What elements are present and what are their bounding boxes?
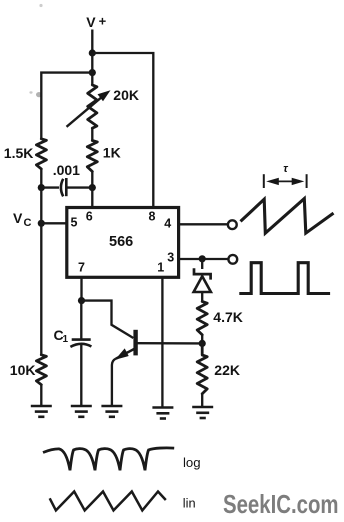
wire 10K to ground bbox=[40, 385, 42, 406]
svg-text:10K: 10K bbox=[10, 362, 36, 378]
ground G4 (pin 1) bbox=[152, 408, 173, 419]
wire V+ down to junction bbox=[91, 30, 93, 54]
svg-text:4: 4 bbox=[164, 216, 171, 230]
svg-text:566: 566 bbox=[109, 234, 133, 250]
wire junction H to transistor base bbox=[82, 301, 134, 338]
wire 22K to ground bbox=[201, 394, 203, 407]
svg-text:1K: 1K bbox=[103, 145, 121, 161]
scan smudge bbox=[36, 92, 42, 97]
svg-text:C: C bbox=[24, 217, 32, 229]
ground G1 (10K) bbox=[31, 406, 52, 417]
wire junction D to pin 6 bbox=[91, 188, 93, 208]
svg-text:4.7K: 4.7K bbox=[213, 309, 243, 325]
svg-text:V: V bbox=[13, 210, 23, 226]
wire C1 to ground bbox=[80, 345, 82, 406]
wire junction B left to 1.5K branch bbox=[41, 73, 92, 139]
resistor 1K zigzag bbox=[87, 141, 97, 172]
square waveform (pin 3 output) bbox=[239, 263, 330, 294]
svg-text:1: 1 bbox=[157, 261, 164, 275]
junction dot B (pot branch) bbox=[89, 69, 96, 76]
capacitor .001 left wire bbox=[41, 186, 59, 188]
capacitor .001 right wire bbox=[66, 186, 92, 188]
ground G2 (C1) bbox=[71, 406, 92, 417]
capacitor .001 curved plate bbox=[61, 179, 63, 197]
wire pin 1 down to ground bbox=[161, 277, 163, 407]
svg-text:8: 8 bbox=[149, 210, 156, 224]
wire pin 7 down to junction H bbox=[80, 277, 82, 300]
svg-text:7: 7 bbox=[78, 261, 85, 275]
junction dot H bbox=[78, 297, 85, 304]
scan speck bbox=[39, 4, 42, 7]
transistor Q1 base bar bbox=[133, 330, 137, 356]
junction dot A (V+ rail split) bbox=[89, 49, 96, 56]
junction dot G (collector node) bbox=[199, 340, 206, 347]
svg-text:lin: lin bbox=[183, 495, 196, 510]
potentiometer R1 20K zigzag bbox=[88, 85, 97, 128]
wire zener to 4.7K bbox=[201, 292, 203, 302]
wire pot to 1K bbox=[91, 128, 93, 140]
log waveform bbox=[43, 448, 174, 470]
wire 1K bottom to junction D bbox=[91, 172, 93, 189]
tau dimension arrows bbox=[276, 180, 294, 182]
wire emitter to ground bbox=[112, 359, 116, 407]
output terminal circle (pin 4) bbox=[228, 220, 237, 229]
ground G3 (emitter) bbox=[101, 406, 122, 417]
svg-text:20K: 20K bbox=[113, 87, 139, 103]
junction dot C bbox=[38, 184, 45, 191]
ground G5 (22K) bbox=[192, 407, 213, 418]
wire Vc node down to 10K bbox=[40, 188, 42, 355]
capacitor C1 curved plate bbox=[70, 344, 91, 347]
wire pin 3 to output terminal bbox=[179, 258, 228, 260]
svg-text:3: 3 bbox=[167, 251, 174, 265]
svg-text:τ: τ bbox=[283, 163, 288, 175]
sawtooth waveform (pin 4 output) bbox=[241, 199, 334, 234]
svg-text:+: + bbox=[99, 13, 107, 28]
output terminal circle (pin 3) bbox=[228, 255, 237, 264]
transistor Q1 emitter bbox=[116, 349, 135, 359]
svg-text:SeekIC.com: SeekIC.com bbox=[223, 489, 339, 519]
zener diode D1 triangle bbox=[194, 276, 211, 292]
svg-text:log: log bbox=[183, 455, 201, 470]
wire pin 4 to output terminal bbox=[179, 223, 228, 225]
wire V+ rail to pin 8 bbox=[92, 53, 153, 208]
svg-text:6: 6 bbox=[86, 210, 93, 224]
svg-text:5: 5 bbox=[71, 216, 78, 230]
wire 4.7K to junction G bbox=[201, 335, 203, 344]
svg-text:1: 1 bbox=[63, 334, 69, 345]
resistor 22K zigzag bbox=[197, 343, 207, 393]
wire Vc node to pin 5 bbox=[41, 222, 67, 224]
resistor 1.5K zigzag bbox=[36, 139, 46, 169]
wire pin3 node down to zener bbox=[201, 259, 203, 269]
resistor 10K zigzag bbox=[36, 355, 46, 385]
svg-text:V: V bbox=[86, 14, 96, 30]
transistor Q1 collector wire to junction G bbox=[138, 342, 203, 345]
junction dot D bbox=[89, 184, 96, 191]
potentiometer arrow bbox=[67, 95, 105, 127]
wire junction H down to C1 bbox=[80, 301, 82, 339]
zener diode D1 cathode bar bbox=[194, 268, 211, 279]
wire junction A to pot top bbox=[91, 53, 93, 85]
junction dot E (Vc node) bbox=[38, 220, 45, 227]
svg-text:.001: .001 bbox=[53, 162, 80, 178]
junction dot F (pin 3 node) bbox=[199, 255, 206, 262]
lin waveform bbox=[50, 492, 166, 511]
capacitor .001 flat plate bbox=[65, 178, 68, 196]
tau dimension ticks bbox=[264, 174, 307, 188]
IC U1 566 box bbox=[67, 208, 179, 278]
svg-text:1.5K: 1.5K bbox=[4, 145, 34, 161]
wire 1.5K bottom to junction C bbox=[40, 169, 42, 188]
resistor 4.7K zigzag bbox=[197, 302, 207, 335]
capacitor C1 flat plate bbox=[72, 338, 91, 341]
svg-text:22K: 22K bbox=[214, 362, 240, 378]
